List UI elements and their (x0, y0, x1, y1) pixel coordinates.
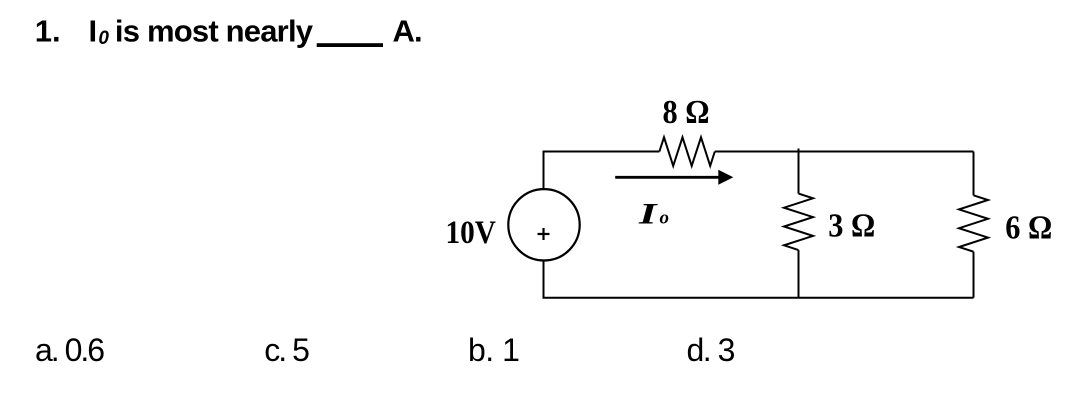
wire: middle branch vertical (node to 3 ohm) (798, 149, 800, 194)
label 3 ohm (828, 207, 875, 244)
wire: middle branch lower vertical (798, 250, 800, 298)
blank underline (317, 43, 383, 47)
current arrow Io (615, 170, 733, 185)
svg-text:b. 1: b. 1 (468, 332, 519, 368)
svg-text:o: o (660, 208, 670, 229)
label Io subscript o (660, 208, 670, 229)
svg-text:I: I (638, 197, 659, 230)
label 10V (446, 215, 497, 251)
svg-text:d. 3: d. 3 (687, 332, 735, 368)
answer c. 5 (264, 332, 309, 368)
svg-text:a. 0.6: a. 0.6 (35, 332, 104, 368)
label Io current name (italic I) (638, 197, 659, 230)
wire: right branch upper vertical (973, 152, 975, 196)
voltage source 10V (circle) (508, 189, 579, 260)
svg-text:1.: 1. (35, 14, 61, 49)
resistor 6 ohm (vertical zigzag) (959, 195, 988, 251)
wire: right branch lower vertical (973, 252, 975, 298)
answer d. 3 (687, 332, 735, 368)
svg-text:6 Ω: 6 Ω (1005, 209, 1052, 246)
wire: left-bottom segment from source down and bottom wire (544, 261, 974, 298)
wire: top-left segment from source to 8ohm resistor (544, 152, 660, 190)
label 8 ohm (663, 94, 710, 131)
wire: top segment from 8ohm resistor to top-right corner (715, 151, 974, 153)
question number 1. (35, 14, 61, 49)
answer b. 1 (468, 332, 519, 368)
svg-text:8 Ω: 8 Ω (663, 94, 710, 131)
plus sign inside source (538, 228, 550, 240)
svg-text:10V: 10V (446, 215, 497, 251)
label 6 ohm (1005, 209, 1052, 246)
svg-text:3 Ω: 3 Ω (828, 207, 875, 244)
resistor 3 ohm (vertical zigzag) (784, 194, 813, 251)
resistor 8 ohm (horizontal zigzag) (659, 137, 714, 166)
svg-text:c. 5: c. 5 (264, 332, 309, 368)
answer a. 0.6 (35, 332, 104, 368)
